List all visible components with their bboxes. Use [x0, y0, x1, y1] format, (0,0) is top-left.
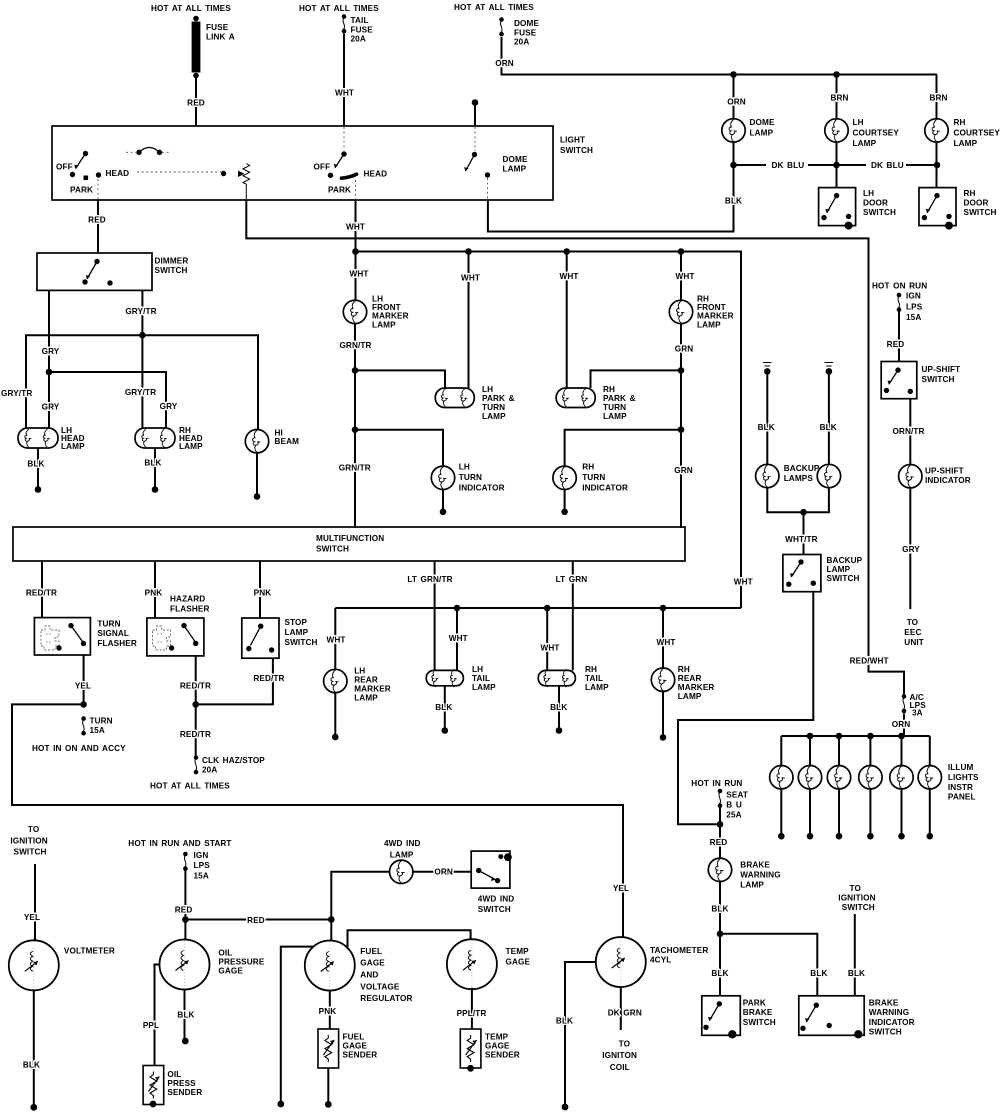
svg-text:SWITCH: SWITCH — [155, 266, 188, 275]
svg-text:YEL: YEL — [613, 884, 629, 893]
svg-text:HOT AT ALL TIMES: HOT AT ALL TIMES — [150, 782, 230, 791]
svg-text:MARKER: MARKER — [354, 685, 391, 694]
svg-text:GRY: GRY — [902, 545, 920, 554]
svg-text:RH: RH — [678, 665, 690, 674]
lamp RH PARK & TURN LAMP — [556, 385, 635, 421]
wire RED to upshift switch — [898, 312, 900, 362]
svg-text:LAMP: LAMP — [603, 412, 627, 421]
svg-text:SWITCH: SWITCH — [922, 375, 955, 384]
relay HAZARD FLASHER — [147, 618, 204, 656]
svg-text:ORN: ORN — [892, 720, 911, 729]
switch PARK BRAKE SWITCH — [702, 996, 776, 1039]
lamp 4WD IND LAMP — [384, 839, 421, 884]
svg-text:FUSE: FUSE — [206, 23, 229, 32]
wire RED to brake warning lamp — [719, 824, 721, 859]
svg-text:PARK: PARK — [70, 186, 93, 195]
wire branch to LH park turn lamp — [355, 370, 445, 388]
svg-text:HAZARD: HAZARD — [170, 595, 205, 604]
svg-text:SWITCH: SWITCH — [743, 1018, 776, 1027]
fuse DOME FUSE 20A — [499, 17, 539, 46]
wire BLK to backup lamps — [766, 371, 768, 464]
svg-text:DOME: DOME — [514, 19, 539, 28]
wire RED rail to fuel gauge — [185, 919, 331, 921]
svg-text:20A: 20A — [514, 38, 529, 47]
svg-text:SWITCH: SWITCH — [560, 146, 593, 155]
wire WHT to RH tail lamp — [546, 608, 548, 670]
wire RED light switch to dimmer — [97, 200, 99, 253]
svg-text:HOT AT ALL TIMES: HOT AT ALL TIMES — [299, 4, 379, 13]
wire lamps down to DK BLU rail — [733, 143, 735, 166]
svg-text:LAMP: LAMP — [750, 129, 774, 138]
wire LH rear marker ground — [334, 693, 336, 734]
svg-text:WHT: WHT — [326, 636, 345, 645]
svg-text:TEMP: TEMP — [506, 947, 530, 956]
lamp RH TURN INDICATOR — [553, 462, 628, 492]
fuse IGN LPS 15A — [897, 292, 923, 322]
svg-text:DK GRN: DK GRN — [608, 1009, 642, 1018]
wire branch to RH park turn lamp — [591, 370, 682, 388]
svg-text:WARNING: WARNING — [740, 871, 780, 880]
svg-text:TEMP: TEMP — [485, 1033, 509, 1042]
lamp RH REAR MARKER LAMP — [651, 665, 714, 701]
svg-text:YEL: YEL — [75, 681, 91, 690]
svg-text:RED/TR: RED/TR — [180, 682, 211, 691]
svg-text:HOT AT ALL TIMES: HOT AT ALL TIMES — [454, 3, 534, 12]
svg-text:SWITCH: SWITCH — [827, 574, 860, 583]
svg-text:OFF: OFF — [314, 163, 331, 172]
svg-text:3A: 3A — [912, 709, 923, 718]
svg-text:LPS: LPS — [194, 861, 211, 870]
wire BLK LH tail ground — [444, 686, 446, 728]
svg-text:YEL: YEL — [24, 913, 40, 922]
svg-text:UNIT: UNIT — [904, 638, 924, 647]
svg-text:BLK: BLK — [725, 197, 742, 206]
wire YEL to voltmeter — [34, 864, 36, 941]
wire BLK RH tail ground — [558, 686, 560, 728]
switch LH DOOR SWITCH — [819, 188, 896, 230]
svg-text:COURTSEY: COURTSEY — [853, 129, 900, 138]
svg-text:IGNITON: IGNITON — [602, 1051, 637, 1060]
svg-text:SWITCH: SWITCH — [285, 638, 318, 647]
svg-text:WHT: WHT — [449, 634, 468, 643]
svg-text:PRESSURE: PRESSURE — [218, 958, 264, 967]
lamp LH PARK & TURN LAMP — [435, 385, 514, 421]
svg-text:DOOR: DOOR — [863, 199, 888, 208]
svg-text:SENDER: SENDER — [343, 1051, 378, 1060]
svg-text:RH: RH — [964, 189, 976, 198]
fuse A/C LPS 3A — [902, 693, 927, 717]
svg-text:BRAKE: BRAKE — [869, 998, 899, 1007]
svg-text:ORN/TR: ORN/TR — [892, 427, 924, 436]
svg-text:BLK: BLK — [810, 969, 827, 978]
fuse TAIL FUSE 20A — [342, 14, 374, 43]
svg-text:LH: LH — [354, 667, 365, 676]
svg-text:FUSE: FUSE — [351, 25, 374, 34]
relay TURN SIGNAL FLASHER — [34, 618, 137, 655]
svg-text:INSTR: INSTR — [948, 783, 973, 792]
svg-text:PARK &: PARK & — [482, 394, 515, 403]
svg-text:SWITCH: SWITCH — [964, 208, 997, 217]
wire fuel gauge feed — [330, 920, 332, 941]
gauge FUEL GAGE AND VOLTAGE REGULATOR — [305, 941, 413, 1004]
svg-text:WHT/TR: WHT/TR — [785, 535, 818, 544]
svg-text:LAMPS: LAMPS — [784, 474, 814, 483]
wire illumination rail — [781, 735, 930, 737]
svg-text:TACHOMETER: TACHOMETER — [650, 946, 708, 955]
svg-text:BLK: BLK — [27, 460, 44, 469]
svg-text:DOME: DOME — [503, 155, 528, 164]
svg-text:LH: LH — [853, 118, 864, 127]
resistor FUEL GAGE SENDER — [318, 1029, 377, 1068]
svg-text:MARKER: MARKER — [678, 683, 715, 692]
lamp LH COURTSEY LAMP — [825, 118, 900, 148]
svg-text:BLK: BLK — [556, 1017, 573, 1026]
svg-text:PNK: PNK — [319, 1007, 337, 1016]
svg-text:PARK &: PARK & — [603, 394, 636, 403]
wire GRY/TR dimmer high beam — [141, 290, 143, 335]
svg-text:INDICATOR: INDICATOR — [459, 483, 505, 492]
svg-text:TO: TO — [28, 825, 40, 834]
svg-text:RED: RED — [710, 838, 728, 847]
wire PPL oil gauge to sender — [155, 965, 160, 1066]
svg-text:SWITCH: SWITCH — [842, 903, 875, 912]
svg-text:HEAD: HEAD — [106, 169, 130, 178]
svg-text:VOLTMETER: VOLTMETER — [64, 946, 115, 955]
svg-text:BRAKE: BRAKE — [743, 1008, 773, 1017]
svg-text:RED/WHT: RED/WHT — [850, 657, 889, 666]
svg-text:LH: LH — [459, 462, 470, 471]
wire WHT park feed from light switch — [355, 200, 357, 252]
svg-text:INDICATOR: INDICATOR — [925, 476, 971, 485]
svg-text:WARNING: WARNING — [869, 1008, 909, 1017]
svg-text:RED: RED — [88, 216, 106, 225]
wire WHT rail — [356, 252, 742, 609]
wire branch to LH turn indicator — [355, 430, 443, 467]
wire GRY dimmer low beam — [48, 290, 50, 372]
wire BLK RH headlamp ground — [154, 448, 156, 487]
svg-text:LAMP: LAMP — [853, 139, 877, 148]
svg-text:RED/TR: RED/TR — [26, 588, 57, 597]
lamp UP-SHIFT INDICATOR — [899, 465, 971, 488]
light switch dome lamp contacts — [464, 127, 528, 199]
svg-text:4WD IND: 4WD IND — [478, 894, 515, 903]
wire BLK tach ground — [565, 962, 597, 1104]
switch 4WD IND SWITCH — [471, 851, 514, 914]
wire fuse link A to light switch — [195, 78, 197, 127]
wire BLK brake warning lamp down — [719, 881, 721, 934]
switch STOP LAMP SWITCH — [242, 618, 318, 658]
svg-text:TURN: TURN — [97, 619, 120, 628]
svg-text:ORN: ORN — [495, 59, 514, 68]
wire LT GRN to RH tail lamp — [572, 561, 574, 670]
svg-text:BLK: BLK — [848, 969, 865, 978]
svg-text:LAMP: LAMP — [61, 442, 85, 451]
svg-text:BLK: BLK — [177, 1011, 194, 1020]
svg-text:LPS: LPS — [906, 302, 923, 311]
svg-text:PARK: PARK — [743, 998, 766, 1007]
svg-text:RH: RH — [954, 118, 966, 127]
light switch middle contacts OFF/PARK/HEAD — [314, 127, 388, 199]
svg-text:LH: LH — [863, 189, 874, 198]
svg-text:BEAM: BEAM — [275, 437, 300, 446]
light switch rheostat (panel dimmer) — [137, 164, 250, 201]
svg-text:ORN: ORN — [434, 868, 453, 877]
wire WHT rear rail — [335, 607, 741, 609]
svg-text:WHT: WHT — [675, 272, 694, 281]
svg-text:HOT ON RUN: HOT ON RUN — [872, 282, 927, 291]
wire WHT to RH front marker — [680, 252, 682, 301]
svg-text:LAMP: LAMP — [179, 442, 203, 451]
switch BACKUP LAMP SWITCH — [783, 555, 863, 592]
svg-text:TURN: TURN — [582, 473, 605, 482]
svg-text:20A: 20A — [202, 766, 217, 775]
svg-text:SENDER: SENDER — [167, 1088, 202, 1097]
wire fuel gauge left to ground terminal — [281, 947, 314, 1101]
wire WHT to RH park turn lamp — [566, 252, 568, 389]
svg-text:HOT IN RUN AND START: HOT IN RUN AND START — [128, 839, 231, 848]
svg-text:PARK: PARK — [328, 186, 351, 195]
lamp RH HEAD LAMP — [135, 426, 203, 451]
svg-text:AND: AND — [360, 971, 378, 980]
svg-text:BLK: BLK — [758, 423, 775, 432]
svg-text:RH: RH — [582, 462, 594, 471]
svg-text:GRN: GRN — [674, 466, 693, 475]
svg-text:MULTIFUNCTION: MULTIFUNCTION — [316, 534, 384, 543]
resistor OIL PRESS SENDER — [143, 1066, 202, 1108]
svg-text:UP-SHIFT: UP-SHIFT — [922, 365, 961, 374]
wire 4wd lamp feed — [331, 872, 389, 920]
svg-text:WHT: WHT — [349, 269, 368, 278]
wire RH rear marker ground — [662, 690, 664, 734]
svg-text:GAGE: GAGE — [506, 957, 531, 966]
wire BLK dome return to light switch — [488, 165, 734, 232]
svg-text:TURN: TURN — [482, 403, 505, 412]
svg-text:B U: B U — [726, 801, 742, 810]
svg-text:RED: RED — [247, 916, 265, 925]
svg-text:RED/TR: RED/TR — [253, 674, 284, 683]
svg-text:LT GRN/TR: LT GRN/TR — [407, 575, 452, 584]
svg-text:OIL: OIL — [218, 949, 232, 958]
svg-text:WHT: WHT — [540, 643, 559, 652]
svg-text:PNK: PNK — [254, 588, 272, 597]
svg-text:GRN/TR: GRN/TR — [339, 341, 371, 350]
wire fuse to junction — [719, 808, 721, 825]
resistor TEMP GAGE SENDER — [460, 1029, 520, 1072]
svg-text:IGN: IGN — [194, 851, 209, 860]
svg-text:SEAT: SEAT — [726, 791, 748, 800]
svg-text:DIMMER: DIMMER — [155, 257, 189, 266]
wire RED fuse to gauges — [184, 871, 186, 920]
switch RH DOOR SWITCH — [919, 188, 997, 230]
svg-text:PANEL: PANEL — [948, 793, 976, 802]
svg-text:OIL: OIL — [167, 1070, 181, 1079]
svg-text:DOME: DOME — [750, 118, 775, 127]
svg-text:HOT AT ALL TIMES: HOT AT ALL TIMES — [151, 4, 231, 13]
svg-text:RH: RH — [585, 665, 597, 674]
svg-text:COURTSEY: COURTSEY — [954, 129, 1000, 138]
gauge TACHOMETER 4CYL — [596, 937, 709, 987]
wire PNK fuel gauge to sender — [329, 991, 331, 1030]
svg-text:BLK: BLK — [435, 703, 452, 712]
wire WHT to LH park turn lamp — [468, 252, 470, 389]
switch DIMMER SWITCH — [37, 253, 188, 290]
svg-text:REGULATOR: REGULATOR — [360, 994, 412, 1003]
svg-text:BRAKE: BRAKE — [740, 861, 770, 870]
wire GRN RH marker down to multifunction switch — [680, 324, 682, 528]
svg-text:GRN/TR: GRN/TR — [339, 463, 371, 472]
svg-text:IGNITION: IGNITION — [10, 836, 47, 845]
svg-text:LAMP: LAMP — [503, 165, 527, 174]
wire RH turn indicator ground — [564, 490, 566, 509]
svg-text:BLK: BLK — [144, 459, 161, 468]
wire ORN to illumination rail — [903, 714, 905, 737]
svg-text:PNK: PNK — [145, 588, 163, 597]
wire drops to dome and courtesy lamps — [733, 75, 735, 119]
svg-text:TAIL: TAIL — [351, 16, 369, 25]
svg-text:LAMP: LAMP — [372, 320, 396, 329]
wire GRY/TR rail to hi-beam and LH headlamp — [26, 335, 258, 434]
wire DK GRN tach to ignition coil — [620, 986, 622, 1030]
svg-text:20A: 20A — [351, 35, 366, 44]
svg-text:RH: RH — [603, 385, 615, 394]
svg-text:FUSE: FUSE — [514, 28, 537, 37]
svg-text:BACKUP: BACKUP — [784, 464, 820, 473]
svg-text:TO: TO — [850, 884, 862, 893]
svg-text:EEC: EEC — [904, 628, 921, 637]
svg-text:LH: LH — [472, 665, 483, 674]
svg-text:CLK HAZ/STOP: CLK HAZ/STOP — [202, 756, 265, 765]
svg-text:LAMP: LAMP — [472, 683, 496, 692]
lamp DOME LAMP — [722, 118, 775, 142]
svg-text:SWITCH: SWITCH — [863, 208, 896, 217]
lamp RH TAIL LAMP — [538, 665, 609, 692]
svg-text:STOP: STOP — [285, 618, 308, 627]
lamp HI BEAM indicator — [245, 429, 299, 453]
svg-text:SIGNAL: SIGNAL — [97, 629, 129, 638]
lamp LH TURN INDICATOR — [431, 462, 504, 492]
svg-text:TO: TO — [907, 618, 919, 627]
svg-text:TAIL: TAIL — [472, 674, 490, 683]
lamp RH FRONT MARKER LAMP — [669, 295, 733, 330]
svg-text:4WD IND: 4WD IND — [384, 839, 421, 848]
svg-text:OFF: OFF — [56, 163, 73, 172]
svg-text:BLK: BLK — [711, 969, 728, 978]
svg-text:FUEL: FUEL — [343, 1033, 365, 1042]
fuse TURN 15A — [81, 716, 112, 735]
svg-text:WHT: WHT — [346, 223, 365, 232]
svg-text:VOLTAGE: VOLTAGE — [360, 982, 400, 991]
wire RED/TR junction to stop lamp switch — [196, 658, 273, 704]
svg-text:ILLUM: ILLUM — [948, 763, 974, 772]
svg-text:GRY: GRY — [160, 402, 178, 411]
fuse SEAT B U 25A — [718, 789, 748, 820]
svg-text:TURN: TURN — [459, 473, 482, 482]
wire tail fuse to light switch WHT — [343, 34, 345, 127]
wire WHT to LH tail lamp — [456, 608, 458, 670]
svg-text:LAMP: LAMP — [354, 694, 378, 703]
svg-text:UP-SHIFT: UP-SHIFT — [925, 466, 964, 475]
svg-text:BLK: BLK — [711, 904, 728, 913]
svg-text:ORN: ORN — [727, 97, 746, 106]
light switch left contacts OFF/PARK/HEAD — [56, 151, 129, 199]
svg-text:LT GRN: LT GRN — [556, 575, 588, 584]
svg-text:FLASHER: FLASHER — [170, 605, 210, 614]
fuse IGN LPS 15A (gauges) — [183, 851, 210, 881]
svg-text:SWITCH: SWITCH — [316, 545, 349, 554]
svg-text:LAMP: LAMP — [285, 628, 309, 637]
wire PPL/TR temp gauge to sender — [471, 988, 473, 1029]
svg-text:25A: 25A — [726, 810, 741, 819]
lamp LH TAIL LAMP — [426, 665, 496, 692]
lamp RH COURTSEY LAMP — [925, 118, 1000, 148]
svg-text:LINK A: LINK A — [206, 32, 235, 41]
svg-text:LAMP: LAMP — [585, 683, 609, 692]
svg-text:RED: RED — [187, 99, 205, 108]
node dome feed junctions — [730, 71, 737, 78]
svg-text:GRY: GRY — [42, 403, 60, 412]
svg-text:GRY/TR: GRY/TR — [125, 388, 156, 397]
svg-text:RED/TR: RED/TR — [180, 730, 211, 739]
wire WHT to LH rear marker — [334, 608, 336, 669]
lamp BACKUP LAMP RH — [817, 464, 840, 487]
wire fuel sender ground — [327, 1068, 329, 1102]
svg-text:BLK: BLK — [23, 1061, 40, 1070]
svg-text:TAIL: TAIL — [585, 674, 603, 683]
wire BLK from ignition switch — [854, 914, 856, 996]
wire LT GRN/TR to LH tail lamp — [434, 561, 436, 670]
svg-text:PPL: PPL — [143, 1021, 159, 1030]
svg-text:GRY/TR: GRY/TR — [1, 389, 32, 398]
svg-text:LH: LH — [482, 385, 493, 394]
node backup feed terminals — [763, 363, 772, 367]
svg-text:GAGE: GAGE — [360, 959, 385, 968]
svg-text:PPL/TR: PPL/TR — [457, 1009, 487, 1018]
svg-text:DK BLU: DK BLU — [871, 161, 904, 170]
svg-text:15A: 15A — [906, 313, 921, 322]
wire BLK to park brake switch — [719, 934, 721, 996]
wire BLK voltmeter ground — [33, 990, 35, 1104]
switch BRAKE WARNING INDICATOR SWITCH — [799, 996, 915, 1039]
gauge TEMP GAGE — [447, 939, 531, 989]
svg-text:WHT: WHT — [559, 272, 578, 281]
svg-text:SWITCH: SWITCH — [14, 848, 47, 857]
svg-text:LAMP: LAMP — [678, 692, 702, 701]
svg-text:LAMP: LAMP — [390, 850, 414, 859]
wire YEL turn flasher output — [83, 655, 85, 704]
wire fuel gauge to temp gauge feed — [348, 930, 471, 949]
svg-text:REAR: REAR — [678, 674, 702, 683]
light switch box — [52, 126, 553, 200]
wire ORN/TR to upshift indicator — [909, 399, 911, 465]
svg-text:INDICATOR: INDICATOR — [582, 483, 628, 492]
lamp BACKUP LAMP LH — [756, 464, 779, 487]
svg-text:FLASHER: FLASHER — [97, 639, 137, 648]
svg-text:LAMP: LAMP — [697, 320, 721, 329]
svg-text:TURN: TURN — [90, 717, 113, 726]
wire DK BLU segments — [734, 164, 938, 166]
svg-text:LIGHTS: LIGHTS — [948, 773, 979, 782]
gauge OIL PRESSURE GAGE — [160, 940, 265, 990]
wire RED/TR down to clk fuse — [195, 704, 197, 755]
wire branch to RH turn indicator — [565, 430, 681, 467]
fuse CLK HAZ/STOP 20A — [194, 755, 266, 775]
wire WHT to RH rear marker — [662, 608, 664, 669]
wire RED/TR hazard output — [195, 656, 197, 705]
lamp LH HEAD LAMP — [18, 426, 85, 451]
svg-text:TURN: TURN — [603, 403, 626, 412]
svg-text:TO: TO — [619, 1039, 631, 1048]
svg-text:15A: 15A — [90, 726, 105, 735]
